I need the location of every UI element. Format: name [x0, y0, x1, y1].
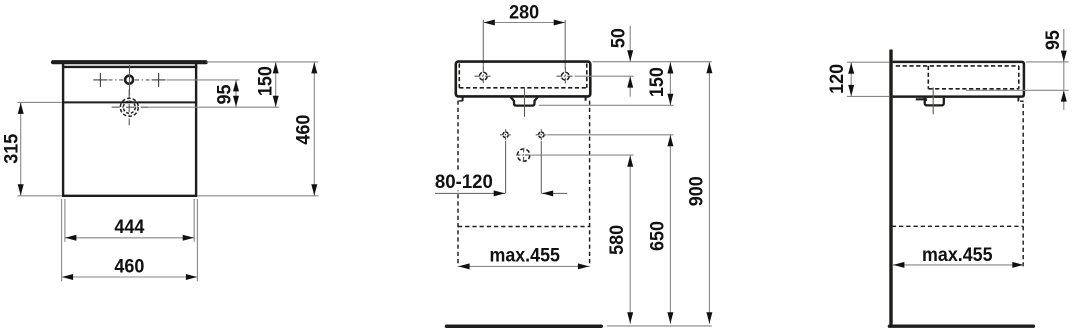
svg-text:460: 460	[114, 255, 144, 277]
svg-text:315: 315	[0, 134, 22, 164]
alternative tap hole cross left	[93, 73, 107, 87]
svg-text:650: 650	[647, 221, 669, 251]
dimension 120	[850, 62, 852, 96]
extension line right of wall line	[207, 61, 319, 63]
clearance box corner dash left	[459, 100, 463, 102]
dimension 580	[629, 155, 631, 324]
dimension 120 extension bottom	[847, 95, 889, 97]
dimension 650	[669, 135, 671, 324]
tap centre extension to 95 dim	[167, 79, 240, 81]
dimension 95 extension bottom (side)	[966, 89, 1069, 91]
svg-text:max.455: max.455	[489, 244, 560, 266]
fixing hole right (front)	[539, 132, 544, 137]
fixing hole drop line right	[540, 141, 542, 194]
dimension 95 extension top (side)	[1026, 61, 1069, 63]
waste centre line (side)	[932, 87, 934, 114]
tap hole right (front)	[562, 72, 570, 80]
dimension 150 (plan)	[275, 62, 277, 107]
fixing hole left (front)	[503, 132, 508, 137]
extension lines below basin for 444	[64, 199, 66, 242]
drain centre extension to dims	[148, 106, 279, 108]
dimension 460 (plan bottom)	[62, 276, 198, 278]
svg-text:444: 444	[114, 216, 144, 238]
svg-text:max.455: max.455	[922, 244, 993, 266]
dimension 120 extension top	[847, 61, 889, 63]
fixing hole drop line left	[505, 141, 507, 194]
dimension max.455 (front)	[458, 265, 589, 267]
svg-text:280: 280	[509, 2, 539, 24]
dimension 444	[65, 237, 194, 239]
svg-text:95: 95	[213, 84, 235, 104]
hidden clearance box left (front)	[457, 101, 459, 267]
svg-text:460: 460	[293, 114, 315, 144]
drain horizontal centre line (plan)	[112, 106, 149, 108]
extension lines below basin for 460	[61, 199, 63, 281]
ledge front edge line (plan)	[62, 101, 197, 103]
hidden inner bottom (front)	[459, 87, 587, 89]
dimension 900	[708, 62, 710, 324]
rim top extension line	[592, 61, 711, 63]
foot tick left (front)	[462, 97, 464, 101]
dimension 80-120 right part	[542, 192, 568, 194]
svg-text:50: 50	[608, 28, 630, 48]
tap hole vertical centre line	[129, 65, 131, 96]
hidden clearance box right (front)	[589, 101, 591, 267]
hidden clearance box right (side)	[1022, 104, 1024, 267]
floor line (side)	[889, 325, 1033, 328]
alternative tap hole cross right	[152, 73, 166, 87]
hidden bowl front wall (side)	[1018, 66, 1020, 89]
dimension 315	[20, 102, 22, 195]
basin rear top edge (plan)	[62, 66, 197, 68]
hidden clearance box bottom (front)	[458, 226, 590, 228]
tap hole circle (plan)	[125, 76, 133, 84]
fixing holes extension to 650 dim	[547, 134, 673, 136]
svg-text:900: 900	[685, 176, 707, 206]
dimension 460 vertical (plan)	[313, 62, 315, 196]
hidden inner edge left (front)	[458, 64, 460, 88]
tap hole centre line dashes (plan)	[109, 79, 125, 81]
dimension 280 extension lines	[482, 20, 484, 68]
waste centre line (front upper)	[524, 88, 526, 117]
hidden bowl bottom (side)	[928, 88, 1019, 90]
basin outline (plan)	[63, 64, 196, 196]
hidden bowl rear wall (side)	[927, 66, 929, 89]
foot tick (side)	[1017, 98, 1019, 102]
siphon extension to 580 dim	[531, 154, 633, 156]
drain bottom extension to 150 dim	[539, 104, 674, 106]
siphon circle (front)	[517, 149, 529, 161]
foot tick right (front)	[585, 97, 587, 101]
svg-text:150: 150	[255, 66, 277, 96]
dimension 80-120 left part	[435, 192, 505, 194]
drain outer dashed circle (plan)	[120, 98, 138, 116]
waste outlet step (side)	[916, 99, 926, 101]
basin profile (side)	[893, 62, 1024, 97]
svg-text:580: 580	[606, 225, 628, 255]
drain inner dashed circle (plan)	[123, 101, 135, 113]
hidden clearance box bottom (side)	[892, 225, 1023, 227]
white backing for label 80-120	[433, 171, 496, 191]
extension line right of basin front edge	[197, 195, 318, 197]
dimension 50	[629, 26, 631, 62]
floor extension line	[607, 325, 712, 327]
waste outlet flange (side)	[925, 98, 944, 106]
tap hole left (front)	[480, 72, 488, 80]
svg-text:120: 120	[826, 64, 848, 94]
wall line (plan)	[53, 60, 206, 64]
drain vertical centre line (plan)	[128, 90, 130, 126]
dimension 95 line (side)	[1063, 29, 1065, 110]
dimension 280	[483, 22, 565, 24]
hidden rim inner top (side)	[896, 65, 1019, 67]
floor line (front)	[447, 324, 602, 328]
dimension 95 (plan)	[235, 80, 237, 107]
waste outlet (front)	[511, 97, 538, 106]
svg-text:150: 150	[646, 67, 668, 97]
extension line left of basin front edge	[18, 195, 62, 197]
hidden clearance corner dash (side)	[1020, 100, 1023, 102]
svg-text:95: 95	[1042, 30, 1064, 50]
dimension max.455 (side)	[893, 264, 1024, 266]
svg-text:80-120: 80-120	[435, 171, 493, 193]
hidden inner edge right (front)	[586, 64, 588, 88]
basin outline (front)	[456, 62, 591, 97]
dimension 150 (front)	[669, 62, 671, 105]
extension line left of ledge line	[18, 101, 62, 103]
tap hole extension to 50 dim	[575, 75, 634, 77]
wall line (side)	[889, 50, 892, 327]
